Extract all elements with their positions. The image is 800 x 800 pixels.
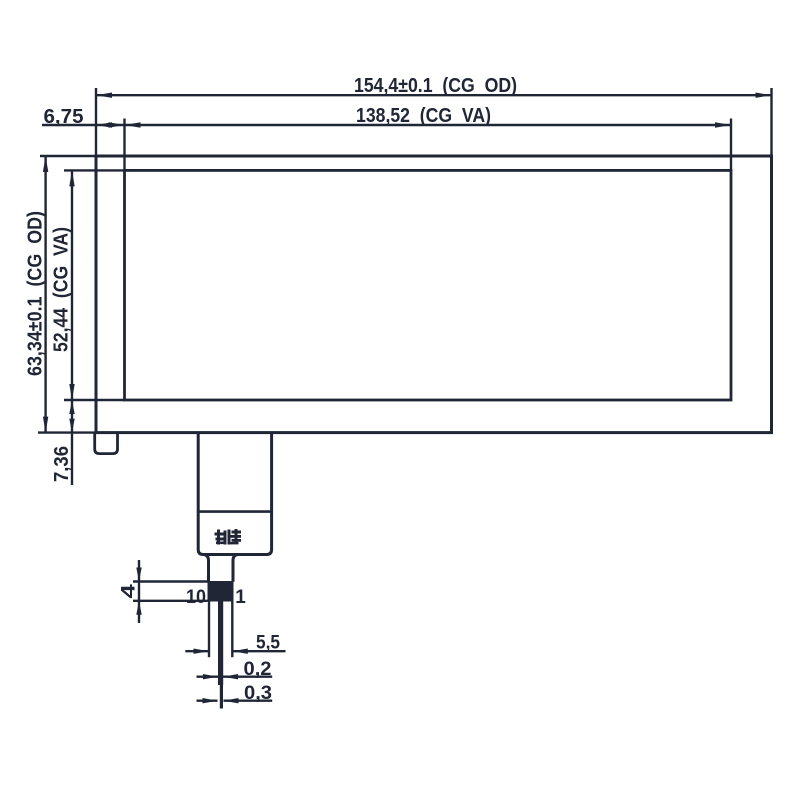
svg-text:154,4±0.1 (CG OD): 154,4±0.1 (CG OD) xyxy=(354,74,517,97)
FPC narrow stem xyxy=(204,555,209,582)
panel outline (CG OD) xyxy=(96,156,772,433)
svg-text:6,75: 6,75 xyxy=(44,105,84,128)
arrowheads 6,75 xyxy=(96,122,112,127)
arrowheads 0,3 xyxy=(203,698,218,703)
svg-text:138,52 (CG VA): 138,52 (CG VA) xyxy=(356,104,491,127)
dimension line 5,5 xyxy=(185,650,209,652)
extension line top left panel (x=96) xyxy=(95,88,97,156)
pin extension line right (x=232.3) xyxy=(231,602,233,658)
dimension line 138,52 and 6,75 xyxy=(42,124,731,126)
svg-text:0,3: 0,3 xyxy=(244,683,272,704)
arrowheads 52,44 xyxy=(69,170,74,186)
stiffener divider line xyxy=(198,510,271,513)
arrowheads 4 xyxy=(136,568,141,582)
extension line black box bottom (y=600.8) xyxy=(133,600,208,602)
svg-text:5,5: 5,5 xyxy=(256,633,280,654)
arrowheads top dim 154,4 xyxy=(96,93,112,98)
dimension line 52,44 vertical xyxy=(71,170,73,400)
svg-text:63,34±0.1 (CG OD): 63,34±0.1 (CG OD) xyxy=(24,211,47,376)
svg-text:1: 1 xyxy=(235,587,246,608)
arrowheads 5,5 xyxy=(194,649,210,654)
FPC wide stem xyxy=(198,433,271,555)
svg-text:0,2: 0,2 xyxy=(244,659,272,680)
pin extension line left (x=209) xyxy=(208,602,210,658)
dimension line 63,34 vertical xyxy=(44,156,46,433)
arrowheads 0,2 xyxy=(203,674,218,679)
stiffener glyphs xyxy=(215,529,242,545)
extension line left VA bottom (y=400) xyxy=(64,399,125,401)
FPC tail thick segment xyxy=(218,602,223,686)
svg-text:7,36: 7,36 xyxy=(50,446,73,482)
extension line top left VA (x=124.5) xyxy=(123,119,125,171)
arrowheads 138,52 xyxy=(125,122,141,127)
black connector block xyxy=(208,581,234,602)
bottom-left tab xyxy=(95,433,118,454)
svg-text:52,44 (CG VA): 52,44 (CG VA) xyxy=(50,227,73,352)
dimension line 4 vertical xyxy=(138,560,140,623)
arrowheads 63,34 xyxy=(43,156,48,172)
FPC tail thin segment xyxy=(220,685,223,709)
extension line black box top (y=581.5) xyxy=(133,580,208,582)
dimension line 0,2 xyxy=(197,676,219,678)
dimension line 0,3 xyxy=(197,700,218,702)
svg-text:4: 4 xyxy=(118,584,139,599)
extension line top right VA (x=731) xyxy=(730,119,732,171)
dimension line 154,4 xyxy=(96,94,772,96)
dimension line 7,36 vertical with tail xyxy=(71,400,73,485)
VA rectangle (CG VA) xyxy=(125,170,732,400)
arrowheads 7,36 xyxy=(69,400,74,414)
extension line top right panel (x=771.5) xyxy=(770,88,772,156)
extension line left panel top (y=156) xyxy=(40,155,96,157)
extension line left panel bottom (y=432.6) xyxy=(38,431,96,433)
extension line left VA top (y=170.4) xyxy=(64,169,125,171)
svg-text:10: 10 xyxy=(186,587,206,608)
